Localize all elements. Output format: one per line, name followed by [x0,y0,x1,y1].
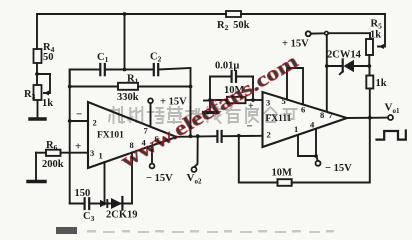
wire: top rail from left corner to right corner [37,14,385,49]
wire: bridge tying FX111 pins 5 and 6 [287,68,303,105]
svg-text:1k: 1k [370,30,381,41]
svg-text:2: 2 [93,118,97,128]
wire: FX101 pin 8 drop [131,153,133,204]
svg-text:1: 1 [294,124,298,134]
capacitor 0.01u [215,61,239,82]
svg-text:1k: 1k [376,78,387,89]
comparator FX111 [263,92,348,147]
svg-text:330k: 330k [117,92,139,103]
node: junction on pin2 wire to feedback drop [237,121,253,138]
svg-text:1k: 1k [42,98,53,109]
svg-text:+: + [75,141,81,153]
svg-text:FX111: FX111 [266,114,292,124]
svg-text:6: 6 [301,105,305,115]
svg-text:FX101: FX101 [97,131,124,141]
resistor R1 330k [117,74,139,104]
capacitor C1 [97,52,109,75]
svg-text:−: − [76,109,82,121]
watermark: red www.elecfans.com diagonal [117,50,304,172]
svg-text:2CK19: 2CK19 [106,210,138,221]
resistor 10M (feedback) [272,168,293,186]
svg-text:1: 1 [99,151,103,161]
wire: vertical from +15V node down to FX111 top edge [325,35,329,111]
svg-text:10M: 10M [272,168,293,179]
op-amp FX101 [88,102,177,168]
resistor R4 50 [34,42,55,63]
node: junction of pin1 drop on C3 wire [102,202,106,206]
svg-text:+ 15V: + 15V [160,97,187,108]
wires and pins 1,4 of FX111 to -15V [298,130,352,175]
parallel 0.01u / 10M network [204,77,255,102]
diode 2CK19 (small) [100,200,107,208]
wire: 150/C3 label and bottom compensation wire [70,188,132,204]
+15V terminal feeding FX111 pin 8/7 and zener [282,31,370,49]
caption strip cut off at bottom edge [56,227,334,234]
wire: feedback to pin2 node [239,136,278,183]
svg-text:− 15V: − 15V [325,163,352,174]
potentiometer R5 1k at top right [366,14,385,66]
wire: R1 rail [68,85,193,89]
svg-text:0.01μ: 0.01μ [215,61,239,72]
wire: C1/C2 rail [70,68,191,87]
wire: FX111 pin 3 input [248,100,263,112]
terminal Vo2 [187,134,202,185]
svg-text:+ 15V: + 15V [282,39,309,50]
wire: FX101 pin 1 drop [104,162,106,204]
-15V terminal at FX101 pin 4 [146,146,173,185]
svg-text:+: + [248,101,254,112]
resistor R6 200k [36,140,64,170]
wire: left vertical bus from rails down to C3 wire [68,70,72,204]
wire: FX111 output to Vo1 terminal [347,102,400,121]
resistor 10M (upper) [224,85,246,103]
svg-text:R2 50k: R2 50k [217,20,250,32]
wire: output down to 10M feedback [292,118,370,183]
svg-text:200k: 200k [42,159,64,170]
potentiometer R3 1k with wiper tied to top [24,74,53,109]
watermark: gray company text row [109,107,297,123]
ground below 10M network [204,100,219,113]
+15V terminal at FX101 pin 7 [148,97,187,127]
ground below R6 [28,153,45,182]
svg-text:2CW14: 2CW14 [327,50,362,61]
capacitor C2 [150,52,162,76]
svg-text:− 15V: − 15V [146,173,173,184]
zener diode 2CW14 [327,50,369,75]
svg-text:3: 3 [266,98,270,108]
svg-text:2: 2 [267,130,271,140]
resistor 1k (right column) [366,66,386,118]
svg-text:3: 3 [90,148,94,158]
wire: right vertical from C1C2/R1 rails to output wire [189,68,193,138]
node: zener / R5 / 1k junction [367,64,371,68]
svg-text:−: − [247,121,253,133]
wire: R4 to R3 junction [35,63,39,85]
svg-text:150: 150 [75,188,91,199]
resistor R2 50k on top rail [217,11,250,32]
svg-text:5: 5 [282,96,286,106]
capacitor C3 [83,198,95,223]
diode 2CK19 (large) [106,197,138,221]
square wave symbol [377,131,406,140]
ground below R3 [30,100,45,119]
svg-text:50: 50 [43,52,54,63]
wire: FX101 output to FX111 pin 2 [177,136,263,137]
svg-text:8: 8 [320,110,324,120]
wire: drop from top rail to C1-C2 midpoint [123,12,127,71]
wire: FX101 non-inverting input pin 3 [61,141,89,153]
wire: FX101 inverting input pin 2 [70,109,88,122]
capacitor (coupling) on output wire [217,131,221,142]
